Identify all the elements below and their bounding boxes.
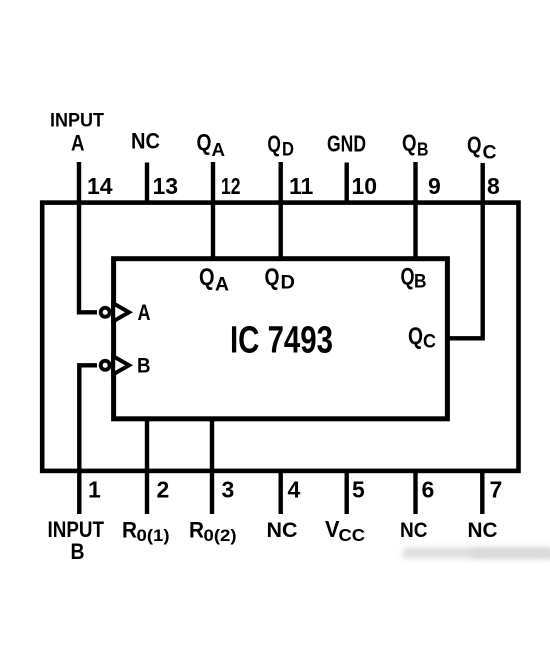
wire pin 1 INPUT B from clock B bbox=[79, 365, 97, 514]
svg-text:2: 2 bbox=[157, 477, 170, 503]
svg-text:D: D bbox=[281, 272, 296, 294]
wire pin 3 R0(2) bbox=[210, 419, 214, 515]
clock input B bubble bbox=[101, 361, 110, 370]
wire pin 10 GND stub bbox=[345, 163, 349, 204]
svg-text:B: B bbox=[414, 272, 427, 293]
svg-text:INPUT: INPUT bbox=[50, 111, 104, 132]
svg-text:NC: NC bbox=[267, 518, 298, 542]
svg-text:Q: Q bbox=[265, 264, 280, 291]
svg-text:Q: Q bbox=[197, 129, 212, 155]
wire pin 11 QD bbox=[279, 162, 283, 259]
svg-text:6: 6 bbox=[422, 477, 435, 503]
outer package rectangle DIP-14 bbox=[42, 203, 518, 471]
svg-text:12: 12 bbox=[221, 173, 241, 199]
wire pin 13 NC stub bbox=[145, 163, 149, 204]
svg-text:8: 8 bbox=[487, 173, 500, 199]
svg-text:11: 11 bbox=[289, 173, 314, 199]
inner IC body rectangle bbox=[114, 259, 448, 419]
svg-text:B: B bbox=[137, 355, 151, 378]
wire pin 6 stub bbox=[413, 470, 417, 514]
svg-text:B: B bbox=[417, 139, 429, 160]
wire pin 2 R0(1) bbox=[145, 419, 149, 515]
svg-text:0(1): 0(1) bbox=[137, 526, 170, 545]
svg-text:NC: NC bbox=[400, 518, 428, 542]
svg-text:4: 4 bbox=[288, 477, 301, 503]
svg-text:B: B bbox=[71, 539, 85, 564]
svg-text:0(2): 0(2) bbox=[204, 526, 237, 545]
svg-text:Q: Q bbox=[402, 130, 417, 156]
svg-text:C: C bbox=[483, 143, 497, 164]
clock input B triangle bbox=[113, 356, 129, 374]
svg-text:CC: CC bbox=[339, 525, 366, 545]
wire pin 14 INPUT A to clock A bbox=[79, 162, 97, 312]
scan smudge artifact bottom right bbox=[402, 548, 550, 559]
svg-text:Q: Q bbox=[467, 132, 482, 158]
wire pin 9 QB bbox=[413, 162, 417, 259]
svg-text:1: 1 bbox=[88, 477, 101, 503]
svg-text:Q: Q bbox=[199, 264, 215, 291]
svg-text:14: 14 bbox=[87, 173, 113, 199]
svg-text:3: 3 bbox=[222, 477, 235, 503]
svg-text:13: 13 bbox=[153, 173, 179, 199]
svg-text:A: A bbox=[215, 275, 229, 296]
svg-text:IC 7493: IC 7493 bbox=[230, 320, 333, 362]
svg-text:7: 7 bbox=[490, 477, 503, 503]
wire pin 12 QA bbox=[211, 162, 215, 259]
svg-text:Q: Q bbox=[267, 131, 281, 157]
wire pin 5 stub bbox=[345, 470, 349, 514]
svg-text:NC: NC bbox=[468, 518, 498, 542]
svg-text:5: 5 bbox=[352, 477, 365, 503]
wire pin 8 QC bbox=[446, 163, 483, 338]
wire pin 7 stub bbox=[480, 470, 484, 514]
clock input A bubble bbox=[101, 308, 110, 317]
wire pin 4 stub bbox=[279, 470, 283, 514]
svg-text:NC: NC bbox=[131, 129, 160, 154]
svg-text:R: R bbox=[189, 518, 204, 543]
svg-text:A: A bbox=[212, 140, 226, 160]
svg-text:10: 10 bbox=[352, 173, 378, 199]
svg-text:D: D bbox=[282, 140, 294, 161]
svg-text:C: C bbox=[423, 332, 436, 353]
svg-text:A: A bbox=[138, 300, 151, 325]
svg-text:Q: Q bbox=[401, 264, 415, 291]
svg-text:Q: Q bbox=[408, 323, 423, 350]
svg-text:R: R bbox=[122, 518, 137, 543]
svg-text:GND: GND bbox=[327, 131, 366, 157]
clock input A triangle bbox=[113, 303, 129, 321]
svg-text:A: A bbox=[71, 131, 85, 156]
svg-text:9: 9 bbox=[428, 173, 441, 199]
